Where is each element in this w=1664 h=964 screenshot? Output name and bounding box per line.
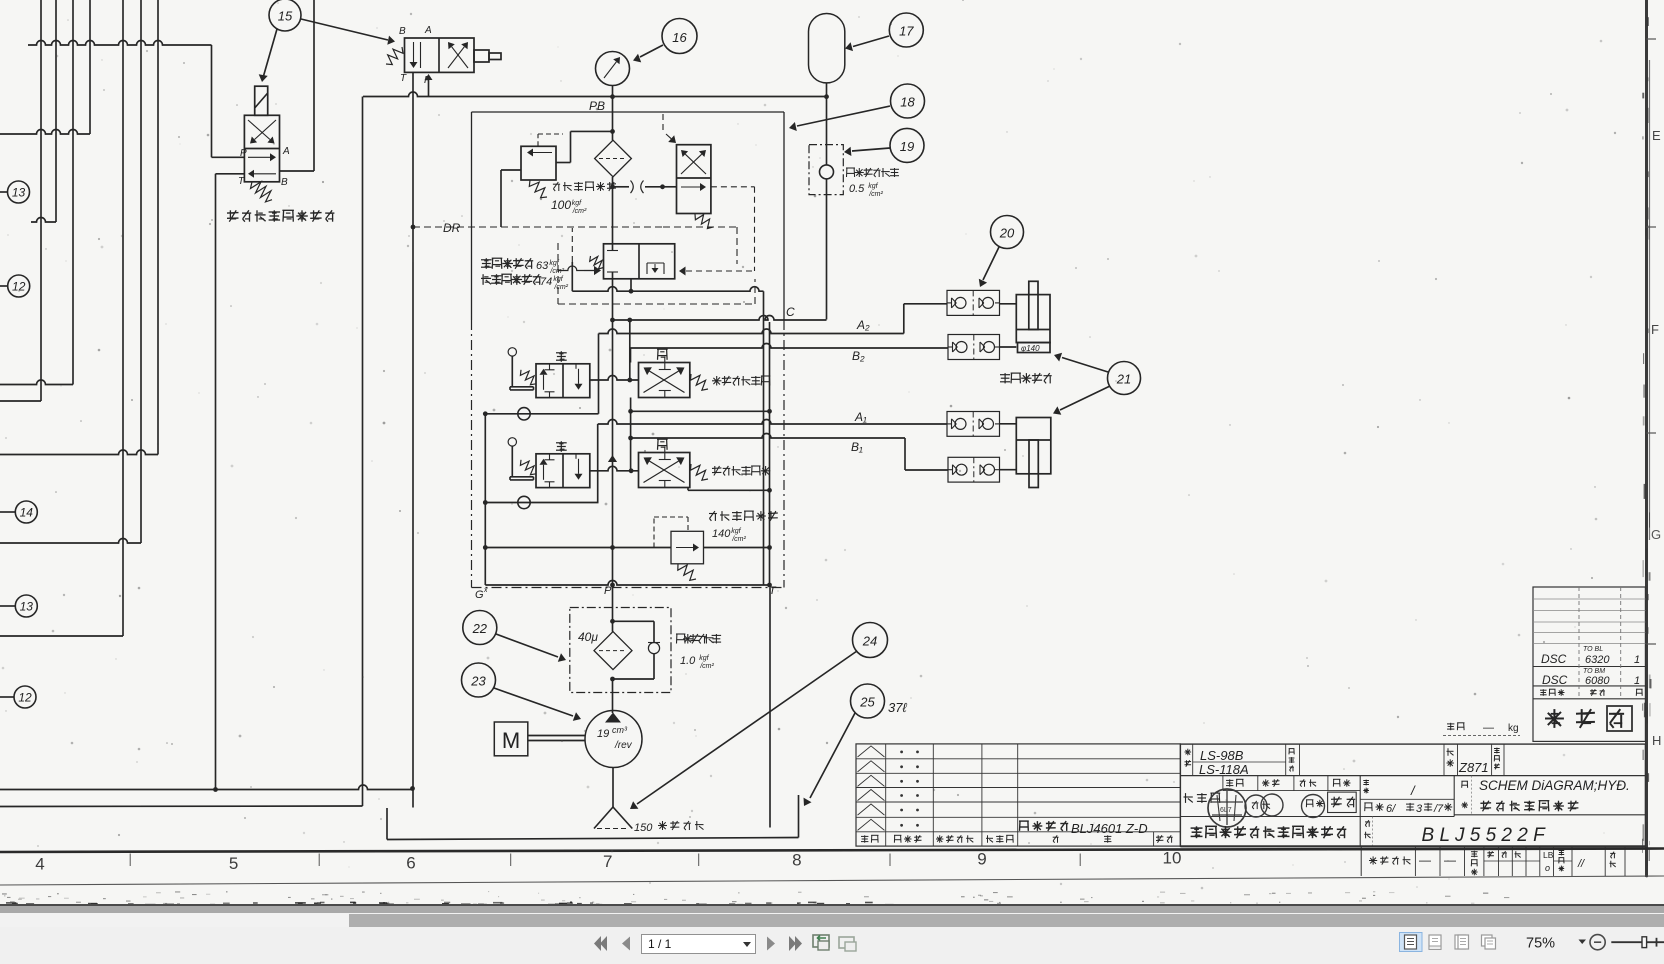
- wire top manifold line y=45 with hops: [28, 41, 212, 46]
- leader 15 to W valve: [301, 19, 395, 45]
- big label BIFUZU (equipment drawing): [1545, 706, 1632, 731]
- DSC table header (Japanese): [1540, 689, 1643, 696]
- svg-text:12: 12: [18, 691, 32, 705]
- svg-text:P: P: [604, 585, 612, 597]
- svg-text:B L J 5 5 2 2 F: B L J 5 5 2 2 F: [1422, 825, 1547, 846]
- filter F1 high pressure: [595, 140, 632, 177]
- wire riser x=362.5: [362, 97, 364, 807]
- title block kubun Z871: [1447, 748, 1500, 775]
- wire feed DV2 from junction: [628, 398, 633, 471]
- callout circle 18: [891, 84, 925, 118]
- product name katakana (hydraulic circuit): [1480, 801, 1578, 812]
- pilot check coupling box 4 (B1): [948, 457, 1000, 482]
- wire W1 T return down to tank: [411, 72, 416, 807]
- label A2: [856, 318, 870, 332]
- pilot line dashed PV1 to unloader: [679, 187, 755, 276]
- valve DV1 centering spring: [691, 374, 709, 390]
- wire branch y=636: [0, 635, 123, 637]
- directional valve DV1 manual section (extend): [508, 348, 590, 398]
- svg-text:18: 18: [900, 95, 915, 110]
- leader 16 to gauge: [633, 45, 663, 62]
- previous page button: [622, 937, 630, 951]
- wire filter to pump: [612, 679, 614, 713]
- valve W1 actuator stub: [474, 50, 501, 62]
- drain line DR dashed: [413, 227, 737, 264]
- wire DV2 tank stub: [688, 488, 770, 491]
- svg-text:—: —: [1419, 853, 1431, 867]
- node 13 callout circle lower: [0, 595, 37, 617]
- node 12 callout circle: [0, 275, 30, 297]
- wire W1 P port riser: [425, 74, 433, 97]
- svg-text:16: 16: [672, 30, 687, 45]
- svg-text:37ℓ: 37ℓ: [888, 700, 907, 715]
- label retract-left (Japanese): [712, 466, 770, 476]
- svg-text:10: 10: [1163, 849, 1182, 868]
- label retract-right (Japanese): [712, 376, 770, 386]
- svg-text:G: G: [475, 589, 484, 601]
- leader 23 to pump: [494, 688, 581, 721]
- label retract (Japanese): [1000, 373, 1052, 383]
- label extend kanji above DV1: [556, 351, 567, 362]
- label relief valve 140kg/cm2 (Japanese): [709, 511, 778, 543]
- wire box4 to cylinder2: [1000, 469, 1017, 471]
- electric motor M1: [494, 722, 585, 756]
- svg-text:Z871: Z871: [1458, 760, 1489, 775]
- cylinder CYL1 (right) with rod up: [1016, 281, 1050, 353]
- label C: [786, 305, 795, 319]
- svg-text:T: T: [400, 73, 407, 84]
- svg-text:24: 24: [862, 634, 877, 649]
- pilot check coupling box 3 (A1): [947, 412, 1000, 437]
- check valve CVG2 on gallery: [485, 496, 598, 508]
- first page button: [594, 936, 607, 951]
- svg-text:/cm²: /cm²: [731, 536, 746, 543]
- svg-text:74: 74: [540, 276, 552, 288]
- page bottom edge dark line: [0, 904, 1664, 906]
- leader 18 to manifold enclosure: [789, 106, 890, 131]
- horizontal scrollbar track: [0, 913, 1664, 928]
- svg-text:23: 23: [470, 674, 486, 689]
- sheet right border (scan edge): [1647, 0, 1650, 877]
- svg-text:φ140: φ140: [1021, 344, 1040, 353]
- svg-text:3: 3: [1416, 803, 1423, 815]
- label cut-out 74kg/cm2 (Japanese): [481, 274, 569, 291]
- pilot valve PV1 (solenoid section): [660, 145, 711, 214]
- wire V15 P-line: [212, 45, 245, 157]
- pilot valve PV1 spring: [695, 214, 713, 229]
- wire V15 T-line down: [216, 174, 245, 790]
- wire branch y=222: [31, 218, 56, 223]
- svg-text:B: B: [399, 26, 406, 37]
- wire DV1 service riser x=598.5: [598, 334, 600, 414]
- svg-text:13: 13: [12, 186, 26, 200]
- label retract kanji above DV1 cross: [657, 349, 668, 362]
- check valve CVG1 on gallery: [483, 408, 599, 420]
- leader 24 to strainer: [630, 651, 857, 809]
- svg-text:DSC: DSC: [1542, 673, 1568, 687]
- wire PB riser x=612.5: [610, 97, 615, 244]
- wire return line y=789 to tank: [0, 785, 415, 792]
- pilot check coupling box 2 (B2): [948, 335, 1000, 360]
- svg-text:/: /: [1410, 783, 1416, 798]
- svg-text:G: G: [1651, 527, 1661, 542]
- svg-text:H: H: [1652, 733, 1661, 748]
- callout circle 24: [853, 623, 888, 658]
- wire box3 to cylinder2: [1000, 423, 1017, 425]
- svg-text:150: 150: [634, 822, 653, 834]
- svg-text:B: B: [281, 177, 288, 188]
- scale cell and date Showa 61-3-17: [1363, 780, 1452, 815]
- svg-text:/cm²: /cm²: [699, 663, 714, 670]
- wire B2 service line: [631, 344, 949, 363]
- pilot line dashed to PV1 top: [663, 114, 676, 143]
- svg-text:63: 63: [536, 260, 549, 272]
- zoom dropdown arrow: [1579, 940, 1587, 945]
- return filter F2 element: [594, 632, 632, 670]
- pressure gauge G1: [596, 52, 630, 100]
- callout circle 19: [890, 128, 924, 162]
- node 13 callout circle: [0, 181, 30, 203]
- svg-text:PB: PB: [589, 99, 605, 113]
- svg-text:A: A: [282, 146, 290, 157]
- svg-text:1: 1: [1634, 654, 1640, 666]
- callout circle 16: [662, 19, 697, 54]
- label similar drawing BLJ4601Z-D: [1019, 821, 1148, 836]
- callout circle 20: [991, 216, 1024, 249]
- accumulator AC1: [809, 14, 845, 100]
- svg-text:40μ: 40μ: [578, 630, 598, 644]
- label DR: [443, 221, 461, 235]
- svg-text:kgf: kgf: [731, 528, 741, 535]
- next page button: [767, 937, 775, 951]
- valve DV2 centering spring: [691, 464, 709, 480]
- svg-text:100: 100: [551, 198, 571, 212]
- relief valve RV2 140kg/cm2: [485, 517, 769, 580]
- pilot sense dashed box around unloader: [558, 243, 755, 304]
- valve V15 port labels: [238, 146, 290, 188]
- svg-text:17: 17: [899, 24, 914, 39]
- orifice restrictor: [613, 181, 663, 194]
- svg-text:21: 21: [1116, 372, 1131, 387]
- wire branch y=401: [0, 400, 41, 402]
- pilot check coupling box 1 (A2): [947, 290, 1000, 315]
- gallery riser G x=485.3: [483, 414, 488, 585]
- svg-text:/cm²: /cm²: [868, 191, 883, 198]
- wire A1 service line: [598, 420, 947, 503]
- svg-text:9: 9: [977, 850, 986, 869]
- drafter name box Suzuki: [1328, 792, 1357, 812]
- horizontal scrollbar thumb: [349, 914, 1664, 927]
- leader 19 to check valve: [844, 147, 890, 156]
- wire B1 service line: [631, 434, 948, 471]
- wire branch y=454.5: [0, 450, 158, 455]
- viewer toolbar: [0, 927, 1664, 959]
- port labels G P T: [475, 585, 777, 601]
- sheet bottom edge line: [0, 876, 1664, 885]
- wire bottom gallery y=585: [485, 581, 769, 586]
- hydraulic pump P1: [585, 711, 642, 768]
- wire unloader drain to right: [572, 279, 763, 585]
- svg-text:LB: LB: [1543, 850, 1554, 860]
- svg-text:8: 8: [792, 851, 801, 870]
- label sankaku (Japanese): [1184, 793, 1221, 803]
- svg-text:6/: 6/: [1386, 803, 1396, 815]
- svg-text:25: 25: [859, 695, 875, 710]
- svg-text:cm³: cm³: [612, 725, 628, 735]
- svg-text:kgf: kgf: [699, 655, 709, 662]
- svg-text:6320: 6320: [1585, 654, 1610, 666]
- svg-text:M: M: [502, 728, 520, 753]
- revision table grid: [856, 744, 1180, 846]
- svg-text:75%: 75%: [1526, 936, 1555, 952]
- bottom strip labels (Japanese): [1369, 850, 1616, 876]
- svg-text:TO BL: TO BL: [1583, 646, 1603, 653]
- approval stamp 3: [1302, 795, 1325, 818]
- callout circle 23: [462, 663, 496, 697]
- unloader valve UV1: [558, 244, 675, 279]
- viewer background strip: [0, 906, 1664, 913]
- zoom percent label: [1526, 936, 1555, 952]
- leader 21 to cylinder2: [1053, 386, 1110, 415]
- two page continuous button: [1482, 935, 1496, 949]
- page number box with text: [641, 934, 756, 954]
- drawing number BLJ 5522 F: [1364, 820, 1546, 846]
- svg-text:/rev: /rev: [614, 740, 633, 751]
- svg-text:DR: DR: [443, 221, 461, 235]
- svg-text:19: 19: [900, 139, 914, 154]
- zoom slider: [1611, 937, 1664, 948]
- svg-text:A₁: A₁: [854, 410, 867, 424]
- svg-text:/cm²: /cm²: [549, 268, 564, 275]
- svg-text:14: 14: [20, 506, 34, 520]
- wire T return into tank: [769, 588, 771, 828]
- oil tank: [387, 795, 799, 840]
- svg-text:5: 5: [229, 854, 238, 873]
- wire pump suction: [612, 768, 614, 808]
- svg-text:x: x: [483, 587, 488, 594]
- callout circle 22: [463, 611, 497, 645]
- wire suction line y=806: [0, 805, 363, 808]
- wire V15 B-line up: [280, 0, 315, 171]
- label B1: [851, 440, 863, 454]
- DSC parts table: [1533, 587, 1645, 741]
- svg-text:1: 1: [1634, 675, 1640, 687]
- bypass check valve around F2: [610, 621, 660, 681]
- svg-text:—: —: [1444, 853, 1456, 867]
- wire DV1 bridge y=380: [590, 376, 639, 383]
- wire branch y=543: [0, 539, 141, 544]
- svg-text:140: 140: [712, 528, 731, 540]
- svg-text:4: 4: [35, 855, 44, 874]
- last page button: [789, 936, 802, 951]
- revision triangles and dots: [858, 746, 919, 831]
- svg-text:kg: kg: [1508, 723, 1519, 734]
- label cracking pressure 1.0kg/cm2 (Japanese): [676, 634, 721, 670]
- measuring ruler edge (thick line): [0, 849, 1664, 853]
- leader 22 to filter: [496, 634, 566, 662]
- svg-text:B₂: B₂: [852, 349, 865, 363]
- manifold enclosure box 18 dash-dot boundary: [472, 112, 785, 588]
- svg-text:o: o: [1545, 863, 1550, 873]
- svg-text:—: —: [1483, 722, 1494, 734]
- svg-text:BLJ4601 Z-D: BLJ4601 Z-D: [1071, 821, 1148, 836]
- label B2: [852, 349, 865, 363]
- check valve CV19 with cracking pressure: [809, 97, 843, 320]
- callout circle 21: [1108, 362, 1141, 395]
- wire P line into filter: [610, 588, 615, 632]
- ruler numbers 4-10: [35, 849, 1181, 874]
- leader 25 to tank wall: [804, 713, 856, 806]
- node 12 callout circle lower: [0, 686, 36, 708]
- two page mode button: [1455, 935, 1469, 949]
- label cut-in 63kg/cm2 (Japanese): [481, 258, 565, 275]
- label extend kanji above DV2: [556, 441, 567, 452]
- svg-text:DSC: DSC: [1541, 652, 1567, 666]
- directional valve DV2 cross section (retract): [639, 453, 690, 488]
- wire PB supply riser through valve block: [608, 279, 617, 588]
- wire branch y=384.5: [0, 380, 73, 385]
- svg-text:C: C: [786, 305, 795, 319]
- callout circle 15: [269, 0, 301, 31]
- suction strainer 150 mesh: [594, 807, 632, 829]
- wire bundle vertical lines (hose group): [41, 0, 158, 636]
- label relief valve 100kg/cm2 (Japanese): [551, 182, 616, 215]
- revision header labels (Japanese): [861, 835, 1173, 842]
- svg-text:E: E: [1652, 128, 1661, 143]
- svg-text:/cm²: /cm²: [553, 284, 568, 291]
- label 150 mesh: [634, 821, 704, 834]
- svg-text:TO BM: TO BM: [1583, 668, 1605, 675]
- valve W1 spring: [386, 47, 403, 65]
- svg-text:6080: 6080: [1585, 675, 1610, 687]
- svg-text:LS-118A: LS-118A: [1199, 762, 1249, 777]
- svg-text:6: 6: [406, 854, 415, 873]
- svg-text:/7: /7: [1433, 803, 1444, 815]
- svg-text:6L7: 6L7: [1220, 807, 1232, 814]
- DSC table row 1 text: [1541, 646, 1640, 666]
- label mass kg: [1443, 722, 1520, 736]
- wire A2 service line: [599, 304, 948, 334]
- wire main pressure line y=96.5: [363, 92, 827, 97]
- svg-text:7: 7: [603, 852, 612, 871]
- previous view icon: [813, 935, 829, 950]
- wire branch y=134: [0, 130, 90, 135]
- wire DV2 bridge y=470.8: [590, 466, 639, 473]
- company name Sumitomo Heavy Industries (Japanese): [1191, 826, 1347, 838]
- svg-text:19: 19: [597, 728, 609, 740]
- svg-text:F: F: [1651, 322, 1659, 337]
- valve W1 port labels: [399, 25, 432, 86]
- label 40M: [578, 630, 598, 644]
- svg-text:/cm²: /cm²: [572, 208, 587, 215]
- page number combo: [742, 941, 750, 946]
- directional valve DV2 manual section (extend): [508, 438, 590, 488]
- valve W1 body: [405, 38, 475, 72]
- valve V15 return spring: [251, 182, 273, 202]
- node 14 callout circle: [0, 501, 37, 523]
- pilot sense riser v2: [767, 322, 772, 587]
- continuous page mode button: [1429, 935, 1441, 950]
- svg-text:22: 22: [472, 621, 488, 636]
- DSC table row 2 text: [1542, 668, 1640, 687]
- svg-text:T: T: [238, 176, 245, 187]
- label A1: [854, 410, 867, 424]
- wire C feed to DV1: [629, 320, 631, 380]
- wire box2 to cylinder1: [1000, 346, 1017, 348]
- svg-text:1.0: 1.0: [680, 655, 696, 667]
- svg-text:LS-98B: LS-98B: [1200, 748, 1244, 763]
- valve V15 body: [244, 115, 279, 182]
- svg-text:kgf: kgf: [553, 276, 563, 283]
- return filter F2 40micron enclosure: [570, 608, 671, 693]
- valve V15 pilot cap: [255, 86, 268, 115]
- svg-text:B₁: B₁: [851, 440, 863, 454]
- svg-text:15: 15: [278, 9, 293, 24]
- svg-text:kgf: kgf: [868, 183, 878, 190]
- svg-text:kgf: kgf: [572, 200, 582, 207]
- bottom strip cells (paint class etc): [1361, 846, 1625, 876]
- zone letters E F G H on right margin: [1647, 39, 1662, 748]
- svg-text:A: A: [424, 25, 432, 36]
- label retract kanji above DV2 cross: [657, 439, 668, 452]
- zoom out button: [1590, 935, 1605, 950]
- wire unloader drain left riser: [571, 228, 573, 291]
- svg-text:20: 20: [999, 226, 1015, 241]
- next view icon: [839, 937, 856, 951]
- label PB: [589, 99, 605, 113]
- product name SCHEM DIAGRAM HYD: [1461, 778, 1629, 808]
- approval stamp 1: [1208, 789, 1246, 827]
- svg-text:0.5: 0.5: [849, 183, 865, 195]
- wire C gallery y=320: [610, 316, 826, 323]
- approval stamp 2: [1245, 794, 1283, 817]
- wire box1 to cylinder1: [1000, 303, 1017, 305]
- leader 15 to pilot cap: [259, 29, 277, 82]
- single page mode button (active): [1400, 933, 1423, 952]
- callout circle 25 tank 37L: [851, 684, 908, 718]
- cylinder CYL2 (left) with rod down: [1016, 418, 1051, 488]
- svg-text:13: 13: [20, 600, 34, 614]
- svg-text:A₂: A₂: [856, 318, 870, 332]
- leader 21 to cylinder1: [1054, 353, 1108, 372]
- callout circle 17: [889, 13, 923, 47]
- wire DV2 supply from v2 y=411.3: [631, 410, 770, 412]
- title block main grid: [1180, 744, 1645, 846]
- leader 17 to accumulator: [845, 36, 889, 51]
- directional valve DV1 cross section (retract): [639, 363, 690, 398]
- title block row1 text machine type LS-98B LS-118A: [1185, 748, 1295, 777]
- svg-text:SCHEM DiAGRAM;HYÐ.: SCHEM DiAGRAM;HYÐ.: [1479, 778, 1630, 793]
- approval header row (Japanese): [1226, 779, 1351, 786]
- relief valve RV1 100kg/cm2: [501, 131, 613, 227]
- label arm lowering stop (Japanese): [227, 210, 334, 221]
- leader 20 to coupling box: [979, 247, 999, 287]
- svg-text://: //: [1577, 858, 1585, 870]
- label cracking pressure 0.5kg/cm2: [846, 168, 899, 198]
